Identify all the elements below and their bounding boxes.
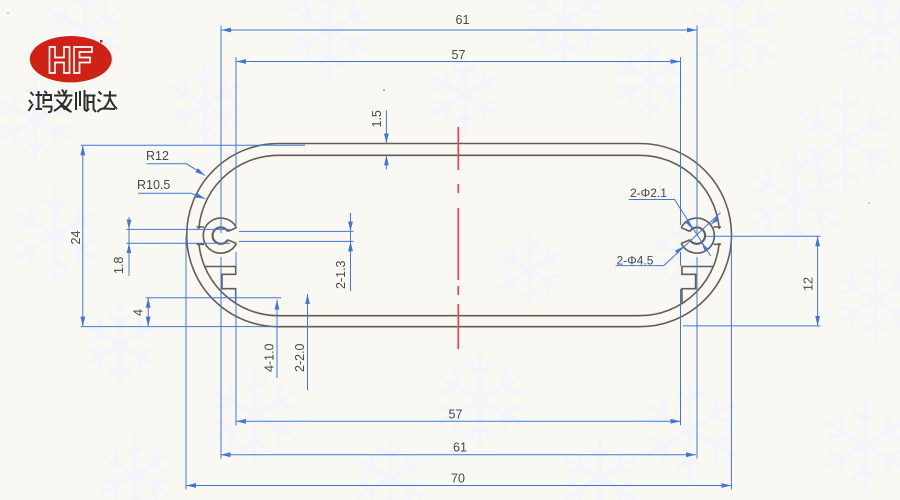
dim 70 bottom line <box>186 485 731 487</box>
ext top tangent <box>81 144 305 146</box>
scan specks <box>383 89 385 91</box>
left boss small c hole <box>213 227 228 243</box>
leader R10.5 <box>138 193 206 198</box>
ext 2-1.3 lower <box>239 240 354 242</box>
dim 61 bottom line <box>221 454 697 456</box>
svg-text:61: 61 <box>456 13 470 27</box>
logo trademark dot <box>100 40 103 43</box>
dim 4-1.0 leader <box>276 300 278 379</box>
dim 1.5 wall thickness <box>385 110 387 143</box>
svg-text:R10.5: R10.5 <box>137 178 170 192</box>
leader 2-phi2.1 <box>629 200 711 257</box>
ext 12 lower <box>683 325 821 327</box>
leader 2-phi4.5 <box>616 213 721 266</box>
right boss outer C <box>681 218 714 253</box>
dim 2-1.3 line <box>350 213 352 291</box>
outer profile wall <box>187 144 732 327</box>
svg-text:57: 57 <box>449 408 463 422</box>
svg-text:R12: R12 <box>146 149 169 163</box>
leader R12 <box>147 164 205 176</box>
dim 57 top line <box>236 61 681 63</box>
ext 1.8 lower <box>126 242 230 244</box>
right boss small c hole <box>690 227 705 243</box>
ext line right inner vertical <box>680 57 682 425</box>
dim 12 line <box>817 236 819 326</box>
ext 1.8 upper <box>126 228 230 230</box>
ext bottom tangent <box>81 326 278 328</box>
inner wall gap left <box>195 229 204 243</box>
svg-text:1.8: 1.8 <box>112 257 126 274</box>
logo H letter tube outline <box>50 47 70 73</box>
svg-text:2-Φ2.1: 2-Φ2.1 <box>630 186 667 200</box>
inner wall gap right <box>715 229 724 243</box>
svg-text:2-Φ4.5: 2-Φ4.5 <box>617 254 654 268</box>
dim 4 line <box>147 298 149 327</box>
dimension texts <box>69 13 816 486</box>
dim 2-2.0 leader <box>307 294 309 390</box>
dim 57 bottom line <box>236 420 681 422</box>
svg-text:57: 57 <box>452 48 466 62</box>
dim 24 left line <box>82 145 84 326</box>
left boss slot walls <box>228 228 237 244</box>
ext line outer right vertical <box>730 236 732 490</box>
ext 4 upper <box>146 297 281 299</box>
dim 61 top line <box>221 29 697 31</box>
left leg with slot <box>204 267 236 303</box>
svg-text:2-2.0: 2-2.0 <box>293 343 307 372</box>
svg-text:61: 61 <box>453 441 467 455</box>
logo F letter tube outline <box>74 47 92 73</box>
svg-text:4-1.0: 4-1.0 <box>263 343 277 372</box>
ext line left boss center vertical <box>220 26 222 459</box>
right leg with slot <box>682 267 714 303</box>
ext line outer left vertical <box>185 236 187 490</box>
inner profile wall <box>199 155 720 315</box>
dark profile group <box>187 144 732 327</box>
left boss wall stubs <box>197 227 205 244</box>
svg-text:2-1.3: 2-1.3 <box>334 260 348 289</box>
ext line left inner vertical <box>235 57 237 425</box>
leader arrowheads on diagonals <box>675 217 719 254</box>
ext 2-1.3 upper <box>239 230 354 232</box>
ext 12 upper <box>706 235 821 237</box>
red centerline <box>457 127 459 349</box>
right boss slot walls <box>681 228 690 244</box>
logo chinese name strokes <box>29 90 118 113</box>
blue dimension lines <box>81 26 821 490</box>
svg-text:1.5: 1.5 <box>370 110 384 127</box>
svg-text:24: 24 <box>69 231 83 245</box>
logo ellipse <box>30 36 112 82</box>
svg-text:4: 4 <box>132 309 146 316</box>
svg-text:70: 70 <box>451 472 465 486</box>
right boss wall stubs <box>714 227 722 244</box>
ext line right boss center vertical <box>696 26 698 459</box>
svg-text:12: 12 <box>802 277 816 291</box>
dim 1.8 line <box>128 217 130 276</box>
left boss outer C <box>203 218 236 253</box>
